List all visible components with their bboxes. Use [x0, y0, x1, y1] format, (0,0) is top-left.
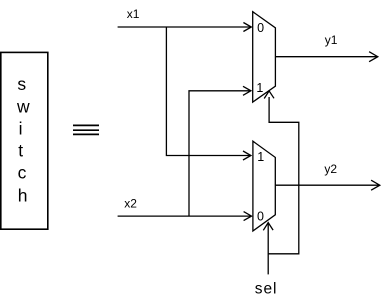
svg-text:x1: x1 [127, 7, 140, 21]
svg-text:1: 1 [257, 150, 264, 164]
svg-text:y1: y1 [325, 33, 338, 47]
arrowhead into M1 input 0 [243, 23, 251, 32]
arrowhead y2 [371, 180, 380, 190]
wire x2 branch up to M1 input 1 [189, 91, 251, 216]
wire sel stem to M2 select [267, 223, 269, 275]
svg-text:0: 0 [257, 210, 264, 224]
wire sel branch to M1 select [268, 97, 299, 254]
svg-text:s: s [17, 74, 26, 94]
arrowhead into M2 input 0 [244, 212, 252, 221]
arrowhead y1 [369, 52, 378, 62]
svg-text:sel: sel [255, 280, 278, 297]
equivalence symbol [73, 125, 99, 134]
svg-text:w: w [16, 97, 30, 117]
wire y1 output [275, 56, 377, 58]
arrowhead into M1 select [264, 91, 274, 99]
svg-text:1: 1 [256, 81, 263, 95]
arrowhead into M2 select [263, 223, 273, 231]
arrowhead into M2 input 1 [243, 151, 251, 160]
svg-text:t: t [18, 140, 23, 160]
svg-text:x2: x2 [124, 196, 137, 210]
wire y2 output [275, 184, 379, 186]
wire x1 branch down [166, 27, 250, 156]
svg-text:h: h [18, 186, 28, 206]
svg-text:i: i [19, 119, 23, 139]
switch block symbol [1, 52, 48, 229]
mux M2 (bottom multiplexer) [253, 141, 275, 231]
wire x1 to M1 input 0 [118, 26, 252, 28]
switch block label "switch" [16, 74, 30, 206]
svg-text:y2: y2 [324, 162, 337, 176]
mux M1 (top multiplexer) [253, 12, 276, 102]
svg-text:0: 0 [257, 21, 264, 35]
wire x2 to M2 input 0 [118, 215, 252, 217]
arrowhead into M1 input 1 [243, 86, 251, 95]
svg-text:c: c [18, 162, 27, 182]
